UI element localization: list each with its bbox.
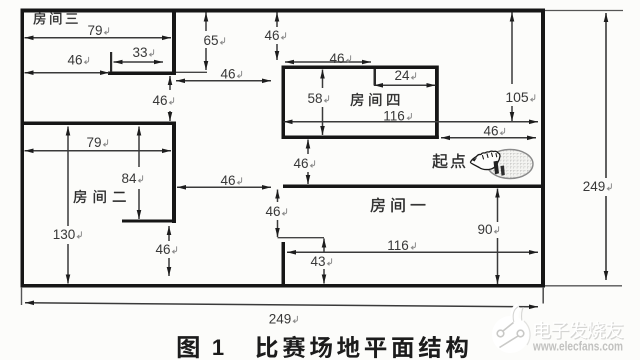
svg-text:46: 46 [329, 51, 344, 66]
dim 46 top-mid line [176, 79, 271, 84]
wall room4 top [282, 66, 439, 70]
dim 43 label [310, 254, 331, 269]
dim 79 room2 line [25, 149, 172, 154]
svg-text:65: 65 [203, 33, 218, 48]
svg-text:58: 58 [307, 91, 322, 106]
svg-text:24: 24 [394, 68, 410, 83]
svg-text:46: 46 [67, 53, 82, 68]
watermark logo circle [492, 307, 530, 354]
dim 116 upper line [284, 120, 539, 125]
svg-text:46: 46 [265, 204, 280, 219]
extension bottom right [545, 285, 622, 287]
dim 46 mid-left line [177, 185, 271, 190]
dim 130 label [53, 227, 82, 242]
dim 116 upper label [383, 109, 411, 124]
dim 46 room3 opening label [67, 53, 88, 68]
svg-text:84: 84 [121, 171, 137, 186]
dim 105 label [505, 89, 534, 105]
watermark 电子发烧友 shadow [536, 322, 625, 340]
dim 58 line [320, 70, 325, 136]
room label 房间三 [33, 12, 77, 24]
dim 130 line [66, 127, 71, 284]
wall outer right [541, 9, 545, 288]
extension right wall down [542, 287, 544, 304]
dim 46 top-vert label [264, 28, 285, 43]
dim 79 room3 label [87, 23, 108, 38]
extension line under 65 [176, 71, 207, 73]
wall bottom stub [282, 242, 286, 287]
dim 46 below startwall line [275, 190, 280, 238]
svg-text:1: 1 [212, 335, 224, 360]
dim 84 label [121, 171, 142, 186]
dim 58 label [307, 91, 328, 106]
dim 105 line [510, 13, 515, 122]
extension top right [545, 10, 623, 12]
dim 79 room2 label [86, 135, 107, 150]
svg-text:46: 46 [220, 67, 235, 82]
svg-text:46: 46 [220, 173, 235, 188]
svg-text:249: 249 [269, 312, 292, 327]
room label 房间一 [371, 198, 426, 213]
label 起点 [432, 154, 465, 169]
dim 249 bottom line [25, 301, 538, 310]
extension line above 43 [278, 237, 325, 239]
svg-text:130: 130 [53, 227, 76, 242]
svg-text:90: 90 [477, 222, 492, 237]
dim 116 lower label [387, 238, 415, 253]
dim 43 line [322, 239, 327, 284]
dim 46 rooms3-2 line [168, 76, 173, 121]
dim 24 line [374, 83, 436, 88]
dim 46 below room2 line [167, 226, 172, 276]
svg-text:46: 46 [483, 124, 498, 139]
dim 33 label [132, 45, 153, 60]
dim 46 below startwall label [265, 204, 286, 219]
svg-text:79: 79 [87, 23, 102, 38]
dim 46 right label [483, 124, 504, 139]
wall room2 top [21, 122, 177, 126]
dim 46 top-vert line [275, 13, 280, 61]
dim 46 above startwall label [293, 156, 314, 171]
caption 图 [178, 336, 199, 358]
svg-text:33: 33 [132, 45, 147, 60]
wall start area [283, 185, 543, 189]
wall room2 right [172, 122, 176, 224]
svg-text:46: 46 [264, 28, 279, 43]
wall outer left [21, 9, 25, 288]
room label 房间四 [350, 93, 399, 106]
svg-text:249: 249 [583, 179, 606, 194]
dim 116 lower line [287, 250, 538, 255]
wall room2 bottom [122, 220, 176, 223]
dim 46 above startwall line [306, 140, 311, 185]
start ellipse hatched [487, 150, 533, 179]
svg-text:105: 105 [505, 89, 529, 105]
dim 33 line [114, 60, 164, 65]
extension left wall down [21, 287, 23, 305]
wall room4 bottom [282, 136, 439, 140]
dim 46 right line [441, 136, 536, 141]
wall outer bottom [21, 284, 546, 288]
svg-text:46: 46 [293, 156, 308, 171]
dim 46 mid-left label [220, 173, 241, 188]
wall room4 right [435, 66, 439, 140]
dim 46 above room4 label [329, 51, 350, 66]
dim 249 right line [604, 13, 609, 280]
wall outer top [21, 9, 542, 13]
dim 46 above room4 line [285, 60, 371, 65]
svg-text:116: 116 [383, 109, 405, 124]
dim 46 below room2 label [155, 242, 176, 257]
dim 24 label [394, 68, 415, 83]
hand icon [470, 151, 504, 176]
svg-text:116: 116 [387, 238, 409, 253]
dim 90 label [477, 222, 498, 237]
wall room4 alcove left [374, 69, 377, 86]
dim 46 room3 opening line [25, 70, 110, 75]
wall room3 stub [110, 52, 112, 72]
dim 90 line [495, 189, 500, 285]
caption 比赛场地平面结构 [256, 336, 467, 358]
wall room4 left [282, 66, 286, 140]
wall room3 bottom [108, 72, 176, 76]
svg-text:46: 46 [155, 242, 170, 257]
dim 249 right label [583, 179, 612, 194]
svg-text:79: 79 [86, 135, 101, 150]
room label 房间二 [73, 190, 125, 203]
dim 79 room3 line [25, 36, 172, 41]
watermark 电子发烧友 [534, 321, 623, 339]
wall room3 right [172, 9, 176, 76]
dim 65 label [203, 33, 224, 48]
dim 46 top-mid label [220, 67, 241, 82]
svg-text:46: 46 [152, 93, 167, 108]
dim 46 rooms3-2 label [152, 93, 173, 108]
dim 84 line [137, 127, 142, 220]
dim 65 line [204, 13, 209, 71]
svg-text:43: 43 [310, 254, 325, 269]
svg-text:www.elecfans.com: www.elecfans.com [532, 340, 623, 354]
dim 249 bottom label [269, 312, 298, 327]
